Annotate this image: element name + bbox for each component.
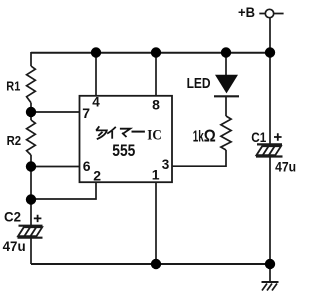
node pin8 top: [151, 47, 161, 57]
LED D1: [214, 75, 239, 97]
wire LED cathode to 1k: [225, 96, 227, 116]
node A R1-R2: [26, 107, 36, 117]
wire pin1 to bottom rail: [155, 182, 157, 264]
svg-text:2: 2: [93, 167, 101, 183]
svg-text:555: 555: [112, 141, 135, 160]
wire top rail: [31, 52, 270, 54]
svg-text:C1: C1: [251, 129, 266, 145]
label C1 plus: [274, 133, 282, 141]
wire pin6: [31, 166, 80, 168]
svg-text:3: 3: [162, 157, 170, 172]
resistor R2: [27, 120, 36, 155]
label timer IC katakana: [96, 126, 145, 139]
wire left rail lower (R2 to C2): [30, 155, 32, 226]
svg-text:8: 8: [152, 96, 160, 112]
resistor R1: [27, 66, 36, 103]
wire left rail upper (to R1): [30, 52, 32, 66]
wire pin3 to 1k resistor: [172, 150, 226, 166]
label C2 plus: [34, 215, 42, 222]
ground: [262, 282, 279, 291]
wire pin7: [31, 111, 80, 113]
svg-text:1: 1: [152, 166, 160, 182]
wire pin8 riser: [155, 53, 157, 96]
svg-text:R2: R2: [7, 133, 22, 148]
svg-text:47u: 47u: [3, 238, 26, 254]
node pin4 top: [91, 47, 101, 57]
svg-text:C2: C2: [4, 208, 21, 224]
terminal +B: [265, 9, 273, 17]
capacitor C1: [256, 144, 283, 156]
capacitor C2: [18, 226, 43, 238]
resistor 1k: [221, 116, 231, 150]
node pin1 bottom: [151, 259, 161, 269]
svg-text:4: 4: [92, 95, 100, 110]
svg-text:6: 6: [83, 158, 91, 174]
svg-text:47u: 47u: [275, 158, 296, 174]
wire bottom rail: [31, 263, 270, 265]
wire pin4 riser: [95, 53, 97, 96]
wire R1 to node A: [30, 103, 32, 120]
IC U1 timer 555 box: [80, 96, 173, 182]
wire +B terminal to C1: [259, 13, 283, 15]
wire LED anode lead: [225, 53, 227, 75]
node +B rail: [265, 47, 275, 57]
svg-text:R1: R1: [6, 79, 20, 94]
svg-text:LED: LED: [187, 76, 211, 92]
svg-text:Ω: Ω: [204, 126, 216, 146]
wire C1 to bottom rail: [269, 157, 271, 282]
node bottom right: [265, 259, 275, 269]
node LED top: [221, 47, 231, 57]
node C C2 top: [26, 194, 36, 204]
wire pin2 to node C: [31, 182, 96, 199]
svg-text:+B: +B: [238, 4, 255, 20]
wire C2 bottom lead: [30, 238, 32, 264]
svg-text:7: 7: [82, 105, 90, 121]
svg-text:1k: 1k: [193, 128, 204, 145]
svg-text:IC: IC: [147, 128, 162, 144]
node B R2-pin6: [26, 161, 36, 171]
